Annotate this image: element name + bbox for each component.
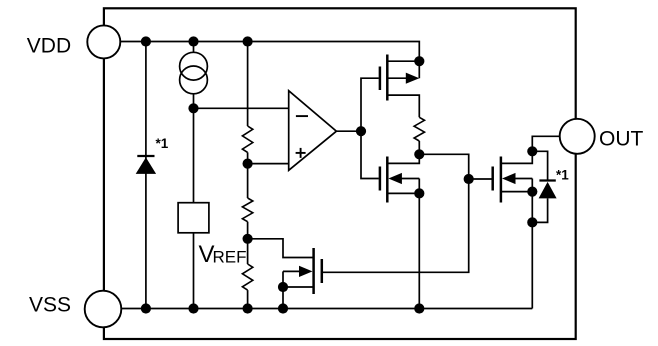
junction M3 source xyxy=(278,282,288,292)
transistor M3 (NMOS) xyxy=(314,248,322,294)
junction tap B xyxy=(243,159,253,169)
wire M1 source to VDD xyxy=(388,60,419,62)
wire inverting input (node A to op-amp) xyxy=(194,107,289,109)
wire VDD rail xyxy=(120,42,419,79)
junction M1 source xyxy=(414,56,424,66)
wire output to M2 gate xyxy=(361,131,379,178)
wire node A to VREF block xyxy=(193,108,195,202)
junction VDD-diode xyxy=(141,36,151,46)
junction OUT-diode xyxy=(527,146,537,156)
junction VSS-M2 xyxy=(414,303,424,313)
svg-text:REF: REF xyxy=(213,247,247,266)
wire M2 source/body down xyxy=(418,179,420,309)
wire D2 cathode to OUT node xyxy=(532,151,547,180)
wire divider top xyxy=(247,42,249,127)
junction tap C xyxy=(243,234,253,244)
junction diode D2 anode node xyxy=(527,217,537,227)
wire tap B to R2 xyxy=(247,164,249,198)
wire R4 to node D xyxy=(418,141,420,154)
wire non-inverting input xyxy=(248,163,289,165)
block VREF xyxy=(178,203,209,233)
wire node D to gate bus xyxy=(323,154,469,272)
wire R1 to tap B xyxy=(247,152,249,163)
wire op-amp output xyxy=(336,130,361,132)
junction VSS-VREF xyxy=(188,303,198,313)
junction M4 source xyxy=(527,187,537,197)
transistor M2 (NMOS) xyxy=(380,157,387,203)
resistor R4 xyxy=(414,117,424,141)
svg-text:*1: *1 xyxy=(156,136,169,151)
wire M4 drain to OUT xyxy=(502,136,560,163)
wire M4 body/source to VSS rail end xyxy=(531,179,533,309)
junction op-amp output xyxy=(356,126,366,136)
svg-text:OUT: OUT xyxy=(599,128,644,151)
junction M2 source xyxy=(414,188,424,198)
svg-text:VSS: VSS xyxy=(29,294,71,317)
junction VSS-diode xyxy=(141,303,151,313)
pin OUT xyxy=(560,119,595,154)
transistor M4 (output NMOS) xyxy=(493,157,501,203)
wire M3 source xyxy=(283,286,313,288)
junction gate bus xyxy=(464,174,474,184)
junction VDD-divider xyxy=(243,36,253,46)
M2 body arrow xyxy=(388,173,419,184)
transistor M1 (PMOS) xyxy=(380,55,387,101)
current source I1 xyxy=(180,52,208,94)
svg-text:VDD: VDD xyxy=(27,34,71,57)
diode D1 *1 xyxy=(136,156,156,174)
wire VSS rail xyxy=(121,308,532,310)
wire M2 source to VSS xyxy=(388,192,419,194)
resistor R2 xyxy=(242,198,252,222)
wire VREF to VSS xyxy=(193,233,195,309)
IC boundary box xyxy=(104,8,576,339)
diode D2 *1 xyxy=(539,181,557,199)
M1 body arrow xyxy=(388,73,419,84)
junction VDD-current source xyxy=(188,36,198,46)
resistor R1 xyxy=(242,126,252,152)
wire M3 body/source to VSS xyxy=(282,271,284,308)
wire M2 drain to node D xyxy=(388,154,419,163)
svg-text:*1: *1 xyxy=(556,168,569,183)
op-amp U1 xyxy=(289,91,337,171)
M3 body arrow xyxy=(283,266,313,277)
pin VDD xyxy=(87,25,120,58)
junction node A xyxy=(188,103,198,113)
wire current source top xyxy=(193,42,195,53)
wire M1 drain to R4 xyxy=(388,95,419,117)
wire output to M1 gate xyxy=(361,78,379,131)
wire R2 to tap C xyxy=(247,222,249,239)
pin VSS xyxy=(85,291,122,328)
wire gate bus to M4 gate xyxy=(469,178,492,180)
wire diode branch VDD to VSS xyxy=(145,42,147,309)
wire M4 source xyxy=(502,191,532,193)
M4 body arrow xyxy=(502,173,532,184)
junction VSS-M3 xyxy=(278,303,288,313)
wire R3 to VSS xyxy=(247,290,249,308)
wire D2 anode down xyxy=(532,198,547,222)
wire M3 drain to tap C xyxy=(248,239,313,258)
junction node D xyxy=(414,149,424,159)
junction VSS-divider xyxy=(243,303,253,313)
wire tap C to R3 xyxy=(247,239,249,264)
resistor R3 xyxy=(242,264,252,290)
wire current source to node A xyxy=(193,94,195,109)
